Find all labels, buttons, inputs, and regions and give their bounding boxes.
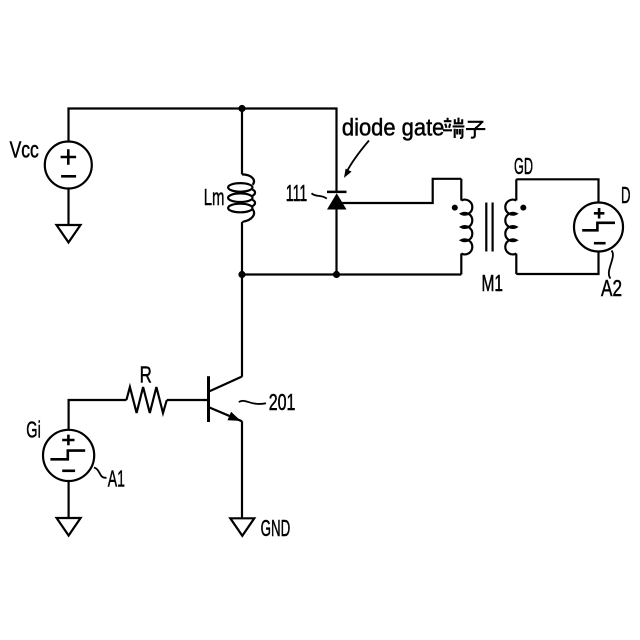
svg-text:R: R bbox=[140, 361, 152, 387]
wire secondary top to source D bbox=[516, 179, 598, 202]
label glyph 端 bbox=[443, 118, 464, 138]
label glyph 子 bbox=[466, 122, 485, 138]
wire node to Lm bbox=[241, 109, 243, 175]
voltage source D (pulse) bbox=[574, 203, 623, 252]
wire collector to bottom node bbox=[241, 275, 243, 377]
ground GND bbox=[230, 518, 254, 536]
wire diode to bottom node bbox=[335, 209, 337, 275]
leader arrow diode gate bbox=[344, 141, 369, 178]
transformer M1 primary winding bbox=[461, 179, 472, 275]
svg-text:Gi: Gi bbox=[26, 416, 41, 442]
svg-text:diode gate: diode gate bbox=[342, 114, 445, 141]
inductor Lm bbox=[228, 174, 255, 222]
wire Gi to resistor R bbox=[69, 400, 127, 430]
leader squiggle 201 bbox=[239, 401, 266, 404]
wire bottom rail bbox=[242, 273, 461, 275]
wire R to transistor base bbox=[167, 399, 207, 401]
svg-text:A2: A2 bbox=[601, 275, 622, 301]
leader squiggle 111 bbox=[312, 193, 327, 198]
transformer core bbox=[486, 203, 492, 252]
svg-text:GD: GD bbox=[514, 153, 533, 179]
svg-text:201: 201 bbox=[269, 389, 296, 415]
voltage source Vcc bbox=[45, 142, 92, 189]
polarity dot secondary bbox=[520, 205, 526, 211]
wire Lm to bottom node bbox=[241, 222, 243, 275]
wire emitter to ground bbox=[241, 421, 243, 518]
svg-text:111: 111 bbox=[286, 180, 308, 206]
svg-text:Lm: Lm bbox=[204, 184, 225, 210]
wire Gi to ground bbox=[67, 481, 69, 518]
polarity dot primary bbox=[452, 205, 458, 211]
ground (below Vcc) bbox=[57, 225, 81, 242]
wire diode to transformer primary bbox=[341, 179, 461, 203]
source Gi (pulse) bbox=[43, 430, 94, 481]
transformer M1 secondary winding bbox=[505, 179, 516, 274]
svg-text:GND: GND bbox=[261, 515, 291, 541]
svg-text:M1: M1 bbox=[482, 270, 504, 296]
leader squiggle A2 bbox=[609, 251, 613, 279]
svg-text:D: D bbox=[621, 182, 631, 208]
svg-text:Vcc: Vcc bbox=[10, 137, 39, 163]
resistor R bbox=[126, 387, 166, 413]
wire source D to bottom bbox=[516, 252, 598, 275]
transistor 201 bbox=[209, 376, 243, 425]
node diode bottom junction bbox=[333, 271, 340, 278]
diode 111 bbox=[327, 192, 347, 210]
svg-text:A1: A1 bbox=[108, 465, 125, 491]
node top junction bbox=[238, 105, 245, 112]
wire Vcc to ground bbox=[67, 189, 69, 226]
ground (below Gi) bbox=[57, 518, 81, 536]
wire top rail bbox=[69, 109, 337, 192]
leader squiggle A1 bbox=[94, 468, 107, 478]
node bottom junction bbox=[238, 271, 245, 278]
